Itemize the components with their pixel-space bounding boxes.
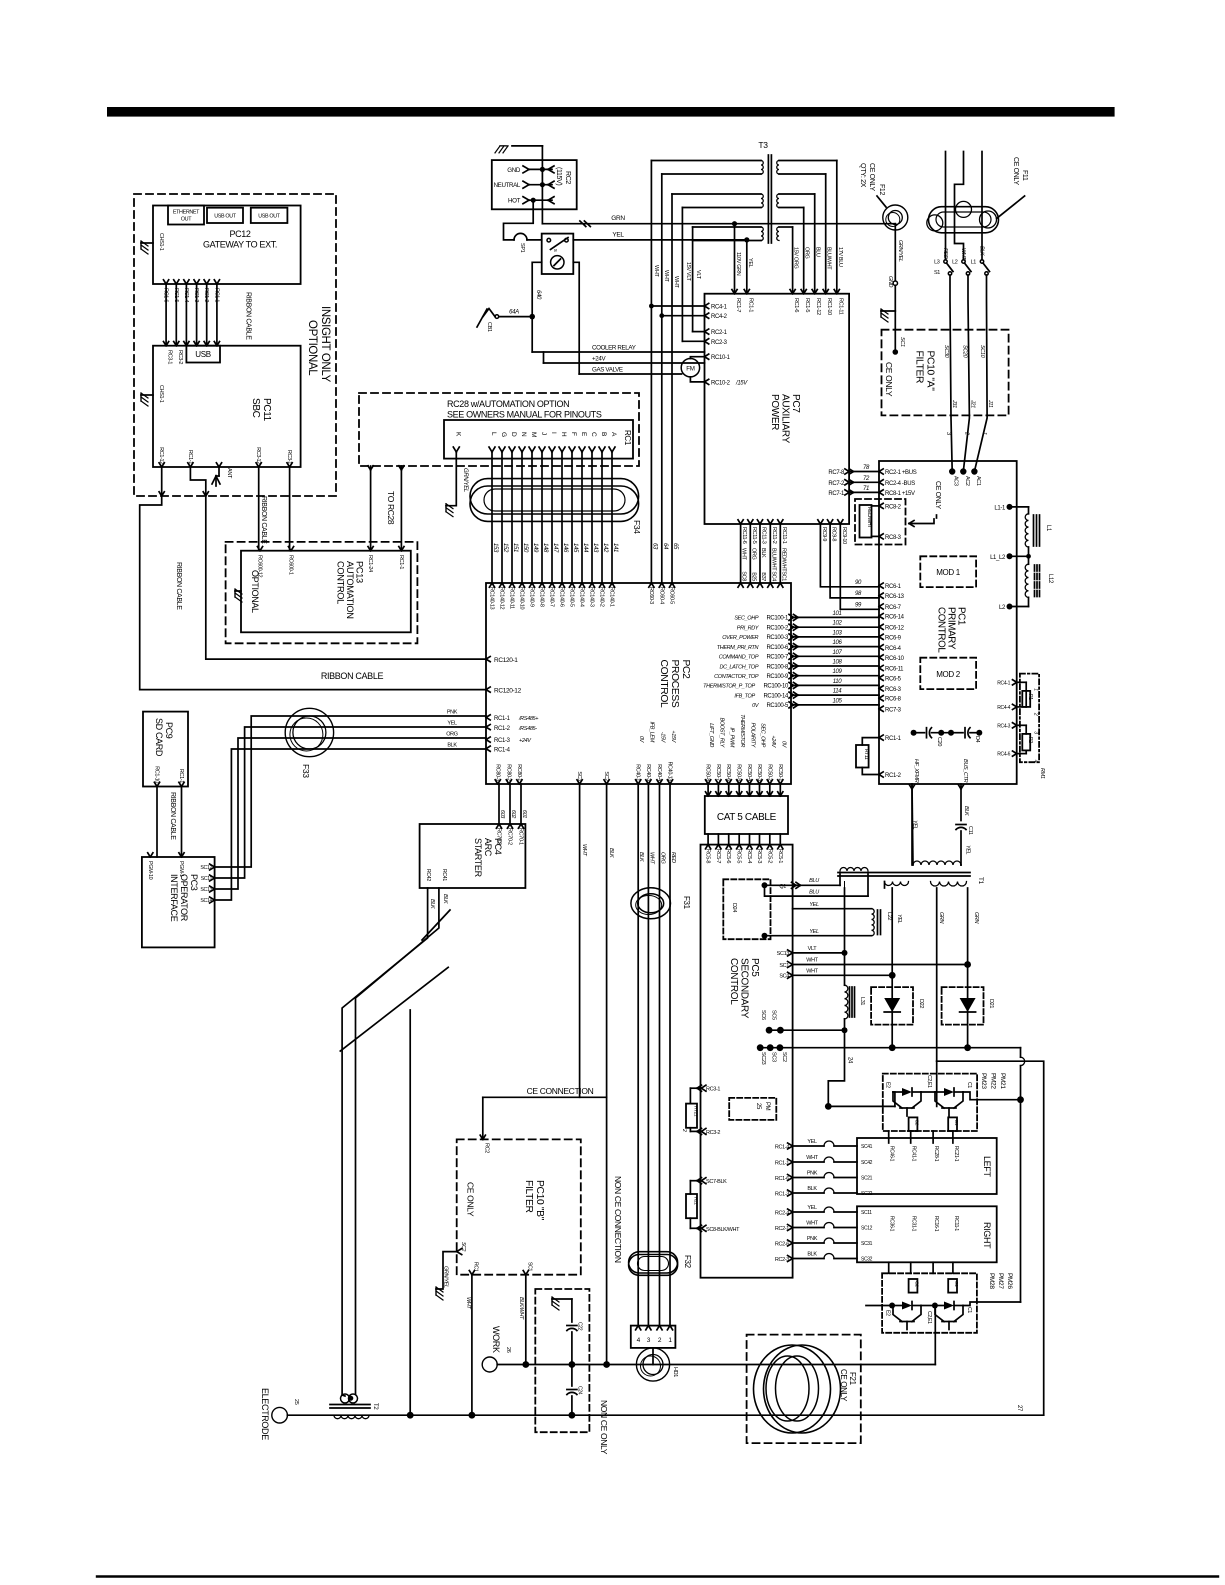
svg-text:PM26: PM26 [1006, 1273, 1013, 1289]
svg-text:SC7-BLK: SC7-BLK [706, 1179, 727, 1185]
svg-text:PC3: PC3 [189, 874, 199, 891]
svg-text:RC1-1: RC1-1 [775, 1160, 789, 1166]
svg-text:RC11-2: RC11-2 [771, 527, 777, 544]
svg-text:GRN/YEL: GRN/YEL [443, 1266, 449, 1288]
svg-text:CE ONLY: CE ONLY [868, 163, 875, 191]
svg-text:152: 152 [502, 543, 508, 553]
svg-text:RC100-2: RC100-2 [766, 626, 789, 632]
svg-text:RC5-5: RC5-5 [736, 849, 742, 863]
svg-text:DC_LATCH_TOP: DC_LATCH_TOP [719, 664, 758, 670]
svg-text:RC9-10: RC9-10 [841, 527, 847, 544]
svg-text:RC8-1 +15V: RC8-1 +15V [885, 491, 915, 497]
svg-text:CE ONLY: CE ONLY [839, 1369, 848, 1402]
svg-text:RC80-2: RC80-2 [505, 764, 511, 781]
svg-text:M: M [530, 432, 537, 437]
svg-text:SEC_OHP: SEC_OHP [760, 723, 766, 748]
svg-text:GRN: GRN [973, 912, 979, 924]
svg-text:ETHERNET: ETHERNET [173, 210, 200, 216]
svg-text:107: 107 [833, 650, 843, 656]
svg-text:PC2: PC2 [680, 660, 691, 680]
svg-text:26: 26 [505, 1347, 511, 1353]
svg-text:RC140-1: RC140-1 [609, 587, 615, 607]
svg-text:T2: T2 [372, 1403, 378, 1410]
svg-text:IP_PWM: IP_PWM [729, 727, 735, 747]
svg-text:PNK: PNK [807, 1236, 818, 1242]
svg-text:FILTER: FILTER [914, 351, 925, 384]
svg-text:ORG: ORG [804, 247, 810, 259]
svg-text:F31: F31 [682, 896, 691, 910]
svg-text:B: B [600, 432, 607, 436]
svg-text:SP1: SP1 [519, 243, 525, 253]
svg-text:PRI_RDY: PRI_RDY [737, 626, 759, 632]
svg-text:PC7: PC7 [790, 394, 801, 413]
svg-text:RC7-8: RC7-8 [828, 470, 845, 476]
svg-text:RC6-3: RC6-3 [885, 687, 902, 693]
svg-text:USB: USB [195, 350, 210, 359]
svg-text:RC5-8: RC5-8 [705, 849, 711, 863]
svg-text:98: 98 [855, 591, 862, 597]
svg-text:SC1: SC1 [779, 963, 789, 969]
svg-text:72: 72 [863, 476, 870, 482]
svg-text:RC100-5: RC100-5 [766, 703, 789, 709]
svg-text:RC100-7: RC100-7 [766, 655, 789, 661]
svg-text:SEE OWNERS MANUAL FOR PINOU: SEE OWNERS MANUAL FOR PINOUTS [447, 410, 602, 420]
svg-text:YEL: YEL [965, 845, 971, 855]
svg-text:C2,E1: C2,E1 [926, 1311, 932, 1324]
svg-text:SC22: SC22 [861, 1191, 873, 1197]
svg-text:+24V: +24V [770, 735, 776, 748]
svg-text:PC10 "B": PC10 "B" [534, 1180, 545, 1221]
svg-text:RC9-8: RC9-8 [831, 527, 837, 541]
svg-text:RC31-1: RC31-1 [911, 1216, 917, 1232]
svg-text:2: 2 [963, 431, 969, 435]
svg-text:153: 153 [492, 543, 498, 553]
svg-text:SC23: SC23 [760, 1052, 766, 1065]
svg-text:RC100-14: RC100-14 [763, 693, 789, 699]
svg-text:RC2-4 -BUS: RC2-4 -BUS [885, 481, 915, 487]
svg-text:QTY: 2X: QTY: 2X [859, 163, 866, 188]
svg-text:CE CONNECTION: CE CONNECTION [527, 1086, 594, 1096]
svg-text:RC11-1: RC11-1 [953, 1216, 959, 1231]
svg-text:RC1-6: RC1-6 [775, 1176, 789, 1182]
svg-text:150: 150 [522, 543, 528, 553]
svg-text:RC1-1: RC1-1 [178, 769, 184, 783]
svg-text:D: D [510, 432, 517, 437]
svg-text:RC140-5: RC140-5 [569, 587, 575, 607]
svg-text:RC50-8: RC50-8 [705, 764, 711, 781]
svg-text:WHT: WHT [663, 270, 669, 282]
svg-text:2: 2 [1033, 712, 1039, 716]
svg-text:RC1-1: RC1-1 [398, 555, 404, 569]
svg-text:ARC: ARC [483, 838, 493, 857]
svg-text:T3: T3 [758, 140, 768, 150]
svg-text:POWER: POWER [769, 394, 780, 430]
svg-text:G1: G1 [953, 1281, 959, 1287]
svg-text:D24: D24 [731, 903, 737, 912]
svg-text:RC7-3: RC7-3 [885, 707, 902, 713]
svg-text:USB OUT: USB OUT [214, 214, 237, 220]
svg-text:H: H [560, 432, 567, 437]
svg-text:+15V: +15V [670, 730, 676, 743]
svg-text:RM1: RM1 [1039, 768, 1045, 779]
svg-text:CB1: CB1 [486, 322, 492, 332]
svg-text:RC50-1: RC50-1 [777, 764, 783, 781]
svg-text:RC1-11: RC1-11 [837, 298, 843, 315]
svg-text:SBC: SBC [250, 398, 261, 418]
svg-text:YEL: YEL [912, 820, 918, 830]
svg-text:J21: J21 [969, 399, 975, 408]
svg-text:VLT: VLT [695, 270, 701, 280]
svg-text:COOLER RELAY: COOLER RELAY [592, 345, 636, 352]
svg-text:YEL: YEL [747, 258, 753, 268]
svg-text:RT21: RT21 [693, 1106, 699, 1117]
svg-text:141: 141 [612, 543, 618, 552]
svg-text:+24V: +24V [519, 738, 532, 744]
svg-text:POLARITY: POLARITY [750, 723, 756, 748]
svg-text:G: G [500, 432, 507, 437]
svg-text:RC120-12: RC120-12 [494, 687, 522, 694]
svg-text:RC6-5: RC6-5 [885, 676, 902, 682]
svg-text:RC3-2: RC3-2 [706, 1130, 720, 1136]
svg-text:SC41: SC41 [861, 1144, 873, 1150]
svg-text:PM23: PM23 [980, 1073, 987, 1089]
svg-text:F: F [570, 432, 577, 436]
svg-text:CAT 5 CABLE: CAT 5 CABLE [717, 812, 777, 823]
svg-text:C2,E1: C2,E1 [926, 1075, 932, 1088]
svg-text:RC9-9: RC9-9 [821, 527, 827, 541]
svg-text:SC32: SC32 [861, 1257, 873, 1263]
svg-text:RC1-1: RC1-1 [747, 298, 753, 312]
svg-text:PROCESS: PROCESS [669, 660, 680, 708]
svg-text:RIBBON CABLE: RIBBON CABLE [260, 496, 267, 544]
svg-text:CHS1-1: CHS1-1 [158, 233, 164, 251]
svg-text:RC21-1: RC21-1 [953, 1146, 959, 1162]
svg-text:RC40-1: RC40-1 [635, 764, 641, 781]
svg-text:RC1: RC1 [472, 1262, 478, 1272]
svg-text:WHT: WHT [581, 844, 587, 856]
svg-text:D21: D21 [988, 999, 994, 1008]
svg-text:THERMISTOR_P_TOP: THERMISTOR_P_TOP [703, 684, 755, 690]
svg-text:103: 103 [833, 630, 843, 636]
svg-text:RC2-1: RC2-1 [775, 1226, 789, 1232]
svg-text:INSIGHT ONLY: INSIGHT ONLY [319, 306, 331, 383]
svg-text:RC80-1: RC80-1 [516, 764, 522, 781]
svg-text:RC2-3: RC2-3 [711, 340, 728, 346]
svg-text:R2: R2 [1027, 737, 1033, 743]
svg-text:RC8-2: RC8-2 [885, 504, 902, 510]
svg-text:PM28: PM28 [988, 1273, 995, 1289]
svg-text:RC50-6: RC50-6 [725, 764, 731, 781]
svg-text:65: 65 [672, 543, 678, 550]
svg-text:WHT: WHT [673, 276, 679, 288]
svg-text:THERMISTOR: THERMISTOR [739, 714, 745, 747]
svg-text:E2: E2 [885, 1082, 891, 1088]
svg-text:AUTOMATION: AUTOMATION [345, 561, 355, 619]
svg-text:RC3-1: RC3-1 [286, 450, 292, 464]
svg-text:RIBBON CABLE: RIBBON CABLE [175, 562, 182, 610]
svg-text:INTERFACE: INTERFACE [169, 874, 179, 922]
svg-text:RC1: RC1 [623, 430, 632, 446]
svg-text:PC13: PC13 [355, 561, 365, 583]
svg-text:BLU: BLU [809, 889, 819, 895]
svg-text:RC4-6: RC4-6 [997, 752, 1010, 758]
svg-text:RC6-4: RC6-4 [885, 646, 902, 652]
svg-text:C20: C20 [936, 737, 942, 746]
svg-text:GRN/YEL: GRN/YEL [897, 240, 903, 262]
svg-text:WHT: WHT [465, 1297, 471, 1309]
svg-text:ELECTRODE: ELECTRODE [260, 1388, 270, 1440]
svg-text:BLK: BLK [429, 899, 435, 909]
svg-text:USB OUT: USB OUT [258, 214, 281, 220]
svg-text:15V VLT: 15V VLT [685, 262, 691, 282]
svg-text:WHT: WHT [806, 958, 818, 964]
svg-text:RC4-1: RC4-1 [711, 305, 728, 311]
svg-text:PC9: PC9 [164, 722, 174, 739]
svg-text:G2: G2 [914, 1120, 920, 1126]
svg-text:RIBBON CABLE: RIBBON CABLE [169, 792, 176, 840]
svg-text:RC2: RC2 [564, 171, 571, 184]
svg-text:CONTACTOR_TOP: CONTACTOR_TOP [714, 674, 759, 680]
svg-text:1: 1 [981, 432, 987, 435]
svg-text:WHT: WHT [653, 265, 659, 277]
svg-text:YEL: YEL [807, 1205, 817, 1211]
svg-text:BLK: BLK [963, 806, 969, 816]
svg-text:L2: L2 [952, 260, 958, 266]
svg-text:143: 143 [592, 543, 598, 553]
svg-text:RC70-3: RC70-3 [496, 828, 502, 845]
svg-text:RC6-9: RC6-9 [885, 635, 902, 641]
svg-text:SD CARD: SD CARD [154, 718, 164, 757]
svg-text:VLT: VLT [808, 946, 818, 952]
svg-text:RC1-24: RC1-24 [367, 555, 373, 572]
svg-text:RC8-3: RC8-3 [885, 535, 902, 541]
svg-text:17V BLU: 17V BLU [837, 247, 843, 267]
svg-text:RC70-1: RC70-1 [518, 828, 524, 845]
svg-text:603: 603 [499, 810, 505, 819]
svg-text:RC60-3: RC60-3 [648, 587, 654, 604]
svg-text:SC31: SC31 [861, 1241, 873, 1247]
svg-text:RC100-10: RC100-10 [763, 684, 789, 690]
svg-text:N: N [520, 432, 527, 437]
svg-text:25: 25 [755, 1103, 761, 1110]
svg-text:RC6-7: RC6-7 [885, 605, 902, 611]
svg-text:RC1-4: RC1-4 [775, 1144, 789, 1150]
svg-text:T1: T1 [977, 877, 984, 885]
svg-text:RC140-11: RC140-11 [509, 587, 515, 609]
svg-text:RC1-12: RC1-12 [158, 447, 164, 464]
svg-text:RC100-8: RC100-8 [766, 664, 789, 670]
svg-text:/RS485-: /RS485- [518, 726, 537, 732]
svg-text:RC1-5: RC1-5 [173, 288, 179, 302]
svg-text:RC36-1: RC36-1 [889, 1216, 895, 1232]
svg-text:R21: R21 [693, 1197, 699, 1205]
svg-text:RC80-3: RC80-3 [494, 764, 500, 781]
svg-text:PGM-10: PGM-10 [147, 861, 153, 880]
svg-text:RC40-3: RC40-3 [645, 764, 651, 781]
svg-text:63: 63 [651, 543, 657, 550]
svg-text:-15V: -15V [660, 732, 666, 744]
svg-text:RC100-9: RC100-9 [766, 674, 789, 680]
svg-text:BLK: BLK [979, 246, 985, 256]
svg-text:/15V: /15V [735, 380, 748, 386]
svg-text:C11: C11 [967, 826, 973, 835]
svg-text:RC50-3: RC50-3 [756, 764, 762, 781]
svg-text:640: 640 [535, 290, 541, 300]
svg-text:SC2: SC2 [460, 1242, 466, 1252]
svg-text:BLK: BLK [608, 848, 614, 858]
svg-text:RC1-5: RC1-5 [804, 298, 810, 312]
svg-text:RC140-8: RC140-8 [539, 587, 545, 607]
svg-text:C24: C24 [577, 1386, 583, 1395]
svg-text:B37: B37 [760, 572, 766, 581]
svg-text:ORG: ORG [660, 852, 666, 865]
svg-text:151: 151 [512, 543, 518, 552]
svg-text:RC1-1: RC1-1 [187, 450, 193, 464]
svg-text:RC11-1: RC11-1 [781, 527, 787, 544]
svg-text:RED: RED [942, 248, 948, 259]
svg-text:71: 71 [863, 486, 869, 492]
svg-text:NON CE ONLY: NON CE ONLY [599, 1400, 609, 1455]
svg-text:HD1: HD1 [672, 1367, 678, 1377]
svg-text:RIBBON CABLE: RIBBON CABLE [245, 292, 252, 340]
svg-text:602: 602 [510, 810, 516, 818]
svg-text:SC11: SC11 [861, 1210, 872, 1216]
svg-text:L1_L2: L1_L2 [990, 555, 1006, 561]
svg-text:RC6-8: RC6-8 [885, 697, 902, 703]
svg-text:RC50-5: RC50-5 [736, 764, 742, 781]
svg-text:SC8-BLK/WHT: SC8-BLK/WHT [706, 1227, 740, 1233]
svg-text:F21: F21 [848, 1372, 857, 1386]
svg-text:RC1-4: RC1-4 [183, 288, 189, 302]
svg-text:15V ORG: 15V ORG [793, 247, 799, 268]
svg-text:PM21: PM21 [999, 1073, 1006, 1089]
svg-text:RC40-4: RC40-4 [656, 764, 662, 781]
svg-text:RC3-2: RC3-2 [177, 350, 183, 364]
svg-text:RC4-4: RC4-4 [997, 705, 1010, 711]
svg-text:G1: G1 [953, 1120, 959, 1126]
svg-text:RC100-1: RC100-1 [766, 616, 789, 622]
svg-text:RED/WHT: RED/WHT [780, 548, 786, 572]
svg-text:RC6-13: RC6-13 [885, 594, 905, 600]
svg-text:ORG: ORG [750, 548, 756, 560]
svg-text:GATEWAY TO EXT.: GATEWAY TO EXT. [203, 240, 277, 250]
svg-text:RC140-9: RC140-9 [529, 587, 535, 607]
svg-text:BOOST_RLY: BOOST_RLY [718, 718, 724, 748]
svg-text:RC50-2: RC50-2 [766, 764, 772, 781]
svg-text:RC1-2: RC1-2 [203, 288, 209, 302]
svg-text:RT11: RT11 [863, 749, 869, 760]
svg-text:MOD 2: MOD 2 [936, 670, 960, 679]
svg-text:F11: F11 [1021, 170, 1028, 181]
svg-text:BLU: BLU [809, 878, 819, 884]
svg-text:PC12: PC12 [229, 229, 250, 239]
svg-text:LIFT_GND: LIFT_GND [708, 723, 714, 747]
svg-text:C1: C1 [966, 1082, 972, 1088]
svg-text:GND: GND [887, 276, 893, 288]
svg-text:YEL: YEL [896, 914, 902, 924]
svg-text:NON CE CONNECTION: NON CE CONNECTION [613, 1176, 623, 1263]
svg-text:SC10: SC10 [979, 345, 985, 359]
svg-text:GRN/YEL: GRN/YEL [462, 468, 468, 492]
svg-text:WORK: WORK [491, 1326, 501, 1353]
svg-text:SC12: SC12 [200, 865, 212, 871]
svg-text:L3: L3 [934, 260, 940, 266]
svg-text:G2: G2 [914, 1281, 920, 1287]
svg-text:SC21: SC21 [861, 1176, 873, 1182]
svg-text:CE ONLY: CE ONLY [934, 481, 941, 509]
svg-text:RC1-2: RC1-2 [494, 726, 511, 732]
svg-text:SC30: SC30 [943, 345, 949, 359]
svg-text:PC5: PC5 [749, 958, 760, 977]
svg-text:Q1: Q1 [779, 884, 786, 890]
svg-text:IFB_TOP: IFB_TOP [734, 693, 755, 699]
svg-text:L1-1: L1-1 [994, 505, 1006, 511]
svg-text:PNK: PNK [807, 1171, 818, 1177]
svg-text:F34: F34 [632, 520, 642, 534]
svg-text:RC120-1: RC120-1 [494, 657, 518, 664]
svg-text:SC1: SC1 [899, 337, 905, 347]
svg-text:RC7-2: RC7-2 [828, 481, 845, 487]
svg-text:S1: S1 [934, 270, 940, 276]
svg-text:SC20: SC20 [961, 345, 967, 359]
svg-text:RC10-1: RC10-1 [711, 355, 731, 361]
svg-text:RC1-10: RC1-10 [826, 298, 832, 315]
svg-text:108: 108 [833, 660, 843, 666]
svg-text:SC12: SC12 [861, 1226, 873, 1232]
svg-text:YEL: YEL [447, 721, 457, 727]
svg-text:B25: B25 [750, 572, 756, 581]
svg-text:WHT: WHT [806, 1155, 818, 1161]
svg-text:RC3-1: RC3-1 [167, 350, 173, 364]
svg-text:RC600-1: RC600-1 [288, 555, 294, 575]
svg-text:64A: 64A [509, 310, 519, 316]
svg-text:106: 106 [833, 640, 843, 646]
svg-text:24: 24 [847, 1057, 853, 1064]
svg-text:YEL: YEL [809, 929, 819, 935]
svg-text:SC5: SC5 [771, 1010, 777, 1020]
svg-text:SECONDARY: SECONDARY [739, 958, 750, 1019]
svg-text:BLK: BLK [638, 852, 644, 862]
svg-text:RC140-10: RC140-10 [519, 587, 525, 610]
svg-text:WHT: WHT [960, 248, 966, 260]
svg-text:RC6-10: RC6-10 [885, 656, 905, 662]
svg-text:147: 147 [552, 543, 558, 553]
svg-text:RIBBON CABLE: RIBBON CABLE [321, 671, 384, 681]
svg-text:BLK: BLK [807, 1186, 817, 1192]
svg-text:RC2-4: RC2-4 [775, 1210, 789, 1216]
svg-text:RC11-5: RC11-5 [751, 527, 757, 544]
svg-text:RC10-2: RC10-2 [711, 380, 731, 386]
svg-text:RC100-3: RC100-3 [766, 635, 789, 641]
svg-text:MOD 1: MOD 1 [936, 568, 960, 577]
svg-text:25: 25 [293, 1399, 299, 1405]
svg-text:BLU/WHT: BLU/WHT [826, 247, 832, 270]
svg-text:RC16-1: RC16-1 [933, 1216, 939, 1232]
svg-text:114: 114 [833, 689, 843, 695]
svg-text:SC3: SC3 [576, 771, 582, 781]
svg-text:102: 102 [833, 621, 843, 627]
svg-text:BUS_CTR: BUS_CTR [962, 759, 968, 783]
svg-text:STARTER: STARTER [473, 838, 483, 878]
svg-text:NEUTRAL: NEUTRAL [494, 182, 521, 189]
svg-text:SC4: SC4 [770, 571, 776, 581]
svg-text:RC11-6: RC11-6 [741, 527, 747, 544]
svg-text:RC60-5: RC60-5 [669, 587, 675, 604]
svg-text:105: 105 [833, 698, 843, 704]
svg-text:101: 101 [833, 611, 842, 617]
svg-text:BLU/WHT: BLU/WHT [770, 548, 776, 571]
svg-text:CHS1-1: CHS1-1 [158, 385, 164, 403]
